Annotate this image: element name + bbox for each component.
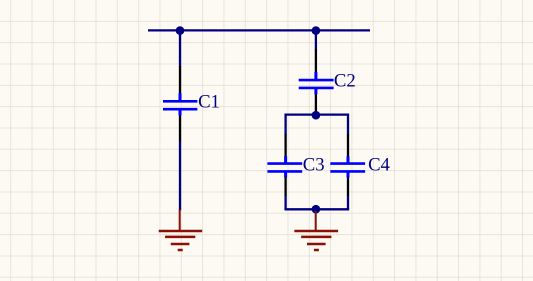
wire C3 branch lower — [284, 196, 286, 210]
junction at top wire / C1 branch — [176, 26, 185, 35]
label C4 — [368, 155, 390, 176]
junction at top wire / C2 branch — [312, 26, 321, 35]
wire C3 branch upper — [284, 115, 286, 135]
label C3 — [303, 155, 325, 176]
wire C4 branch lower — [347, 196, 349, 210]
wire C4 branch upper — [347, 115, 349, 135]
wire C1 branch lower — [179, 141, 181, 211]
label C1 — [198, 92, 220, 113]
wire C2 branch upper — [315, 30, 317, 49]
svg-text:C1: C1 — [198, 92, 220, 113]
junction at C2 bottom / parallel pair top — [312, 111, 321, 120]
label C2 — [334, 70, 356, 91]
wire C1 branch upper — [179, 30, 181, 66]
svg-text:C3: C3 — [303, 155, 325, 176]
capacitor C4 — [330, 134, 365, 196]
wire parallel pair bottom horizontal — [286, 208, 348, 210]
svg-text:C4: C4 — [368, 155, 390, 176]
wire top horizontal net — [148, 29, 370, 31]
wire parallel pair top horizontal — [286, 113, 348, 115]
capacitor C1 — [163, 66, 197, 142]
svg-text:C2: C2 — [334, 70, 356, 91]
capacitor C2 — [299, 49, 334, 113]
ground GND2 — [294, 211, 338, 250]
ground GND1 — [159, 210, 203, 251]
junction at parallel pair bottom / GND2 — [312, 205, 321, 214]
capacitor C3 — [267, 134, 302, 196]
